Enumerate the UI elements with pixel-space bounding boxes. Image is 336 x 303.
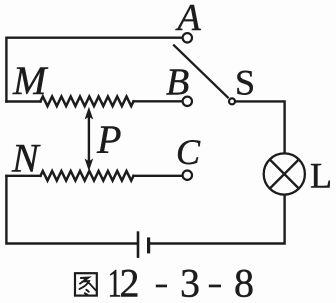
svg-text:N: N [11, 136, 41, 181]
svg-text:M: M [12, 58, 49, 103]
wire resistor N to terminal C [134, 175, 182, 177]
wire resistor M to terminal B [134, 100, 182, 102]
resistor N [41, 171, 134, 181]
svg-text:C: C [176, 132, 201, 172]
battery cell: short plate [147, 237, 150, 253]
terminal C [183, 171, 192, 180]
wire N-line left segment [6, 175, 40, 177]
svg-text:L: L [310, 156, 332, 196]
switch S lever arm [173, 45, 228, 99]
resistor M [41, 97, 134, 107]
battery cell: long plate [137, 231, 140, 258]
wire switch S to right corner down to lamp [236, 101, 284, 152]
svg-text:S: S [235, 63, 255, 103]
svg-text:2: 2 [120, 261, 140, 303]
wire battery to bottom right corner up to lamp [150, 196, 285, 244]
caption glyph 图 drawn as strokes [75, 273, 97, 295]
terminal B [183, 97, 192, 106]
switch S pivot [229, 98, 235, 104]
terminal A [183, 33, 192, 42]
svg-text:8: 8 [234, 261, 254, 303]
svg-text:3: 3 [180, 261, 200, 303]
wiper arrow P double-headed [85, 107, 94, 171]
svg-text:B: B [166, 62, 189, 104]
lamp L cross [270, 160, 299, 189]
wire left side down to battery line [6, 176, 136, 244]
svg-text:A: A [175, 0, 202, 39]
wire M-line left segment [6, 100, 40, 102]
svg-text:P: P [96, 117, 121, 162]
lamp L circle [264, 153, 305, 194]
wire top from left corner to terminal A [6, 38, 181, 102]
